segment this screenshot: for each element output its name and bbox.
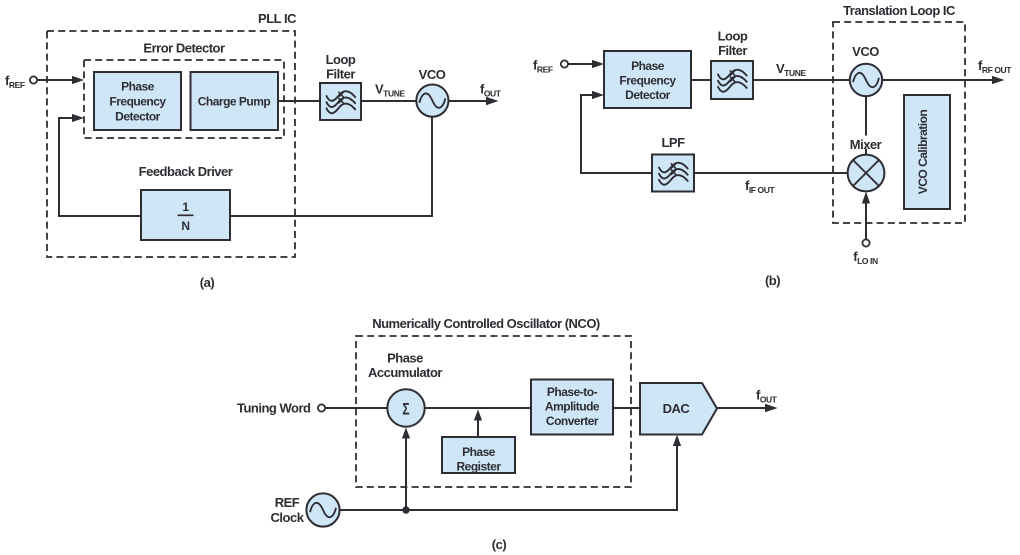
summing node sigma (phase accumulator) xyxy=(387,389,424,426)
svg-text:Detector: Detector xyxy=(115,110,161,124)
wire Loop Filter to VCO (a) xyxy=(361,100,417,102)
wire Loop Filter to VCO (b) xyxy=(753,79,850,81)
svg-text:DAC: DAC xyxy=(663,401,691,416)
block Loop Filter (b) low-pass filter symbol xyxy=(711,61,753,99)
wire f_REF to PFD (b) with arrowhead xyxy=(568,63,594,65)
wire PFD to Loop Filter (b) xyxy=(691,79,711,81)
svg-text:VCO: VCO xyxy=(419,67,446,82)
svg-text:Frequency: Frequency xyxy=(619,74,676,88)
svg-text:Translation Loop IC: Translation Loop IC xyxy=(843,3,956,18)
block 1/N feedback divider xyxy=(141,190,230,240)
svg-text:Filter: Filter xyxy=(326,67,355,82)
svg-text:Feedback Driver: Feedback Driver xyxy=(139,164,233,179)
block Phase Register xyxy=(442,437,515,474)
svg-text:Accumulator: Accumulator xyxy=(368,365,442,380)
block LPF low-pass filter symbol xyxy=(652,155,694,192)
oscillator VCO (b) xyxy=(850,64,882,96)
svg-text:PLL IC: PLL IC xyxy=(258,11,297,26)
mixer symbol (circle with X) xyxy=(848,155,885,192)
block Phase Frequency Detector (a) xyxy=(94,72,181,130)
svg-text:Clock: Clock xyxy=(271,510,305,525)
block DAC (pentagon) xyxy=(640,383,717,435)
wire converter to DAC xyxy=(613,407,640,409)
block Charge Pump xyxy=(191,72,279,130)
wire PFD feedback input from LPF (b) with arrowhead xyxy=(581,95,652,173)
PLL IC dashed enclosure xyxy=(47,31,295,257)
svg-text:(a): (a) xyxy=(200,275,215,290)
svg-text:Loop: Loop xyxy=(326,52,356,67)
svg-text:REF: REF xyxy=(275,495,300,510)
wire VCO down to Mixer xyxy=(865,96,867,136)
wire VCO to f_RF OUT arrow (b) xyxy=(882,79,993,81)
svg-text:Phase-to-: Phase-to- xyxy=(547,385,598,399)
svg-text:(c): (c) xyxy=(492,537,507,552)
svg-text:VCO Calibration: VCO Calibration xyxy=(916,110,930,195)
svg-text:Loop: Loop xyxy=(718,29,748,44)
node Tuning Word input terminal xyxy=(318,404,325,411)
wire DAC to f_OUT arrow (c) xyxy=(717,407,766,409)
svg-text:Error Detector: Error Detector xyxy=(143,41,225,56)
block Phase Frequency Detector (b) xyxy=(604,51,691,108)
svg-text:VCO: VCO xyxy=(852,44,879,59)
svg-text:(b): (b) xyxy=(765,273,780,288)
svg-text:Frequency: Frequency xyxy=(109,95,166,109)
junction dot on REF clock wire xyxy=(402,506,409,513)
svg-text:N: N xyxy=(181,219,189,233)
svg-text:Tuning Word: Tuning Word xyxy=(237,401,311,416)
svg-text:Phase: Phase xyxy=(387,351,423,366)
wire REF Clock to DAC bottom xyxy=(340,444,677,510)
svg-text:Converter: Converter xyxy=(546,414,599,428)
wire Tuning Word to phase accumulator xyxy=(325,407,387,409)
svg-text:Detector: Detector xyxy=(625,88,671,102)
wire junction up to sigma with arrowhead xyxy=(405,436,407,510)
svg-text:Mixer: Mixer xyxy=(850,137,882,152)
oscillator VCO (a) xyxy=(416,85,448,117)
svg-text:Amplitude: Amplitude xyxy=(545,400,600,414)
wire VCO down and feedback to 1/N xyxy=(230,117,432,216)
svg-text:Phase: Phase xyxy=(462,445,496,459)
NCO dashed enclosure xyxy=(356,336,631,487)
svg-text:Numerically Controlled Oscilla: Numerically Controlled Oscillator (NCO) xyxy=(372,316,600,331)
svg-text:1: 1 xyxy=(182,200,189,214)
wire LPF to Mixer xyxy=(694,172,848,174)
wire 1/N output left and up to PFD with arrowhead xyxy=(59,118,141,216)
Translation Loop IC dashed enclosure xyxy=(833,22,965,223)
Error Detector dashed enclosure xyxy=(84,60,284,138)
node f_LO IN input terminal xyxy=(862,239,869,246)
wire f_REF to PFD with arrowhead xyxy=(38,79,75,81)
svg-text:Charge Pump: Charge Pump xyxy=(198,95,271,109)
wire VCO to f_OUT arrow (a) xyxy=(449,100,488,102)
svg-text:Phase: Phase xyxy=(631,59,665,73)
svg-text:Σ: Σ xyxy=(402,400,409,419)
svg-text:Filter: Filter xyxy=(718,43,747,58)
oscillator REF Clock xyxy=(306,493,339,526)
block Phase-to-Amplitude Converter xyxy=(531,380,613,435)
wire sigma to Phase-to-Amplitude Converter xyxy=(425,407,531,409)
svg-text:Register: Register xyxy=(456,460,501,474)
block VCO Calibration xyxy=(904,95,950,209)
wire Charge Pump to Loop Filter xyxy=(278,100,320,102)
wire Phase Register up to main wire with arrowhead xyxy=(477,419,479,437)
svg-text:LPF: LPF xyxy=(661,135,685,150)
wire f_LO IN up to Mixer with arrowhead xyxy=(865,202,867,239)
svg-text:Phase: Phase xyxy=(121,80,155,94)
block Loop Filter (a) low-pass filter symbol xyxy=(320,83,361,120)
